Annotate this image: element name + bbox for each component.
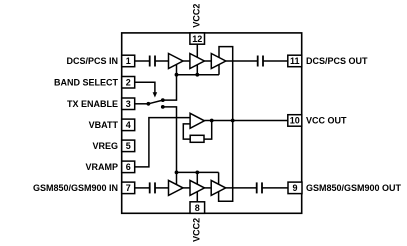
amplifier A2 GSM — [190, 180, 205, 195]
regulator feedback loop — [183, 124, 190, 139]
feedback to output node — [204, 121, 212, 140]
svg-text:11: 11 — [290, 56, 300, 66]
pin 3 box — [122, 98, 135, 110]
svg-text:9: 9 — [292, 183, 297, 193]
wire cap to pin11 — [263, 60, 288, 62]
wire lower contact down to GSM bias — [163, 107, 177, 172]
svg-text:DCS/PCS IN: DCS/PCS IN — [66, 56, 118, 66]
wire pin8 VCC2 up to bias — [196, 172, 198, 201]
svg-text:6: 6 — [126, 162, 131, 172]
IC body — [122, 33, 302, 213]
svg-text:1: 1 — [126, 56, 131, 66]
wire upper contact to DCS bias rail — [163, 75, 177, 100]
svg-text:5: 5 — [126, 141, 131, 151]
svg-text:VCC OUT: VCC OUT — [306, 116, 347, 126]
junction GSM bias vcc2 — [195, 171, 199, 175]
pin 10 box — [288, 115, 302, 127]
wire cap to amp1 GSM — [155, 187, 169, 189]
svg-text:12: 12 — [192, 34, 202, 44]
pin 2 box — [122, 77, 135, 89]
wire pin7 to cap — [135, 187, 150, 189]
svg-text:VBATT: VBATT — [89, 120, 119, 130]
svg-text:8: 8 — [195, 203, 200, 213]
switch upper contact dot — [161, 98, 165, 102]
pin 5 box — [122, 140, 135, 152]
wire pin3 tx enable to switch pivot — [135, 103, 149, 105]
svg-text:TX ENABLE: TX ENABLE — [67, 99, 118, 109]
capacitor C_in GSM — [150, 182, 155, 193]
DCS bias line — [177, 74, 220, 76]
wire cap to pin9 — [262, 187, 288, 189]
svg-text:VCC2: VCC2 — [192, 218, 202, 242]
svg-text:GSM850/GSM900 OUT: GSM850/GSM900 OUT — [306, 183, 402, 193]
switch arm — [148, 100, 162, 104]
svg-text:VREG: VREG — [92, 141, 118, 151]
capacitor C_out DCS — [258, 56, 263, 67]
op-amp regulator — [190, 113, 204, 128]
wire amp3 GSM to output cap — [226, 187, 257, 189]
amplifier A3 DCS — [211, 54, 226, 69]
pin 1 box — [122, 55, 135, 66]
wire cap to amp1 DCS — [155, 60, 169, 62]
resistor feedback — [190, 135, 204, 142]
regulator output to pin10 — [204, 120, 287, 122]
svg-text:BAND SELECT: BAND SELECT — [54, 78, 119, 88]
capacitor C_out GSM — [257, 182, 262, 193]
bias stub into amp1 GSM — [176, 172, 178, 188]
svg-text:GSM850/GSM900 IN: GSM850/GSM900 IN — [33, 183, 118, 193]
band select arrow — [153, 92, 158, 97]
junction DCS bias left — [175, 73, 179, 77]
svg-text:7: 7 — [126, 183, 131, 193]
pin 9 box — [288, 182, 302, 194]
pin 8 box — [190, 202, 205, 214]
capacitor C_in DCS — [150, 56, 155, 67]
wire amp2-amp3 DCS — [204, 60, 211, 62]
amplifier A2 DCS — [190, 54, 205, 69]
pin 7 box — [122, 182, 135, 194]
svg-text:VCC2: VCC2 — [192, 4, 202, 28]
junction DCS bias vcc2 — [195, 73, 199, 77]
amplifier A1 GSM — [169, 180, 184, 195]
junction vcc rail — [231, 119, 235, 123]
pin 11 box — [288, 55, 302, 66]
bias stub into amp1 DCS — [176, 61, 178, 75]
pin 12 box — [190, 33, 205, 44]
svg-text:DCS/PCS OUT: DCS/PCS OUT — [306, 56, 368, 66]
wire pin6 vramp to regulator input — [135, 118, 190, 167]
wire amp2-amp3 GSM — [205, 187, 212, 189]
wire pin2 band select — [135, 82, 155, 93]
VCC loop under amp3 GSM — [219, 121, 233, 202]
GSM bias line — [177, 171, 219, 173]
svg-text:VRAMP: VRAMP — [85, 162, 118, 172]
amplifier A1 DCS — [169, 54, 184, 69]
pin 4 box — [122, 119, 135, 131]
wire pin1 to cap — [135, 60, 150, 62]
junction regulator output — [210, 119, 214, 123]
wire amp1-amp2 GSM — [183, 187, 190, 189]
svg-text:3: 3 — [126, 99, 131, 109]
svg-text:4: 4 — [126, 120, 131, 130]
svg-text:2: 2 — [126, 78, 131, 88]
VCC loop over amp3 DCS — [219, 47, 233, 121]
pin 6 box — [122, 161, 135, 173]
wire pin12 VCC2 down to bias — [196, 44, 198, 75]
amplifier A3 GSM — [211, 180, 226, 195]
junction GSM bias left — [175, 171, 179, 175]
wire amp1-amp2 DCS — [183, 60, 190, 62]
switch lower contact dot — [161, 105, 165, 109]
svg-text:10: 10 — [290, 116, 300, 126]
wire amp3 DCS to output cap — [226, 60, 258, 62]
switch pivot dot — [147, 102, 151, 106]
